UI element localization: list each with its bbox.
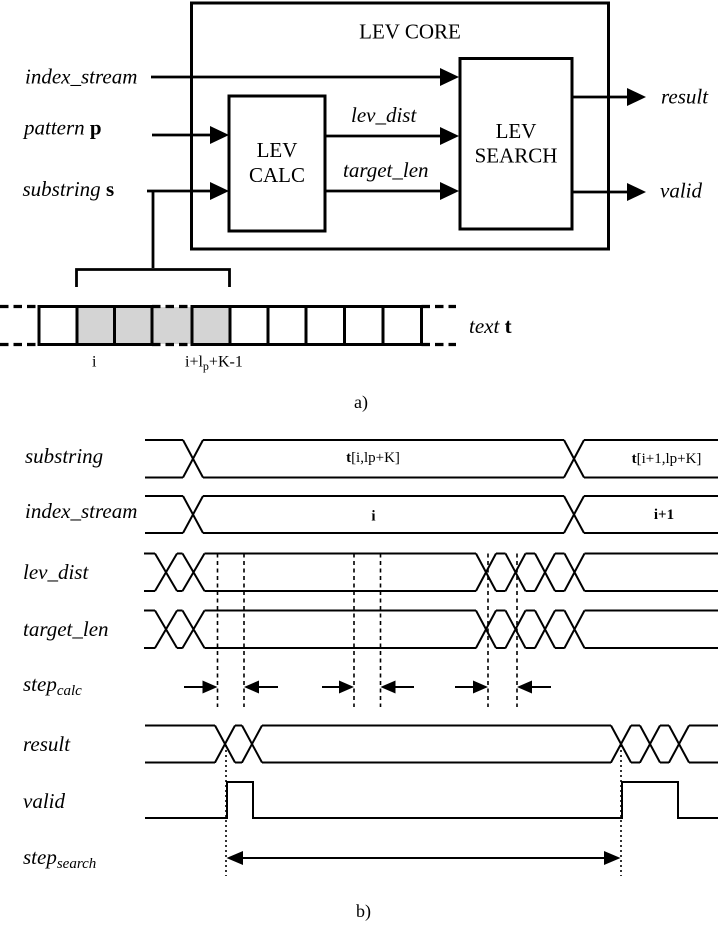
wire substring s	[147, 182, 229, 200]
svg-text:target_len: target_len	[343, 158, 429, 182]
svg-text:valid: valid	[23, 789, 65, 813]
bracket window	[77, 270, 230, 288]
svg-text:lev_dist: lev_dist	[351, 103, 417, 127]
wire index_stream	[151, 68, 459, 86]
step_calc arrow 1 left	[244, 681, 278, 694]
svg-text:b): b)	[356, 901, 371, 922]
svg-text:lev_dist: lev_dist	[23, 560, 89, 584]
svg-text:t[i+1,lp+K]: t[i+1,lp+K]	[632, 451, 702, 467]
svg-text:LEV CORE: LEV CORE	[359, 20, 461, 44]
step_calc arrow 2 left	[381, 681, 415, 694]
wire valid	[572, 183, 646, 201]
signal index_stream bus	[145, 496, 718, 533]
svg-text:pattern p: pattern p	[22, 116, 102, 140]
text array gray cells	[77, 307, 230, 344]
wire substring tap	[152, 191, 155, 268]
svg-text:a): a)	[354, 392, 368, 413]
block LEV SEARCH	[460, 59, 572, 230]
svg-text:text t: text t	[469, 314, 512, 338]
svg-text:target_len: target_len	[23, 617, 109, 641]
step_calc arrow 3 right	[455, 681, 488, 694]
dotted marker line left	[225, 745, 227, 876]
svg-text:i: i	[371, 509, 375, 525]
signal target_len bus	[144, 611, 718, 649]
svg-text:index_stream: index_stream	[25, 65, 137, 89]
text array cells	[39, 307, 422, 345]
signal lev_dist bus	[144, 554, 718, 592]
step_calc arrow 1 right	[184, 681, 218, 694]
outer box LEV CORE	[192, 3, 609, 249]
text array dashed gap	[152, 307, 192, 345]
svg-text:LEV: LEV	[496, 119, 537, 143]
svg-text:i+lp+K-1: i+lp+K-1	[185, 354, 243, 374]
block LEV CALC	[229, 96, 325, 231]
step_calc arrow 2 right	[322, 681, 354, 694]
svg-text:i+1: i+1	[654, 507, 674, 523]
svg-text:substring: substring	[25, 444, 103, 468]
svg-text:CALC: CALC	[249, 163, 305, 187]
wire result	[572, 88, 646, 106]
dashed marker lines pair 2	[354, 554, 381, 708]
svg-text:LEV: LEV	[257, 138, 298, 162]
svg-text:valid: valid	[660, 179, 702, 203]
svg-text:result: result	[661, 85, 709, 109]
svg-text:result: result	[23, 732, 71, 756]
svg-text:SEARCH: SEARCH	[475, 144, 558, 168]
dashed marker lines pair 1	[218, 554, 245, 708]
signal result bus	[145, 726, 718, 763]
signal substring bus	[145, 440, 718, 478]
signal valid	[145, 782, 718, 818]
svg-text:t[i,lp+K]: t[i,lp+K]	[346, 450, 400, 466]
svg-text:substring s: substring s	[23, 177, 115, 201]
text array dashed lead right	[422, 307, 457, 345]
wire pattern p	[152, 126, 229, 144]
step_search arrow	[227, 851, 621, 865]
svg-text:stepsearch: stepsearch	[23, 845, 96, 872]
dashed marker lines pair 3	[488, 554, 517, 708]
text array dashed lead left	[0, 307, 39, 345]
svg-text:stepcalc: stepcalc	[23, 672, 82, 699]
wire target_len	[325, 182, 459, 200]
svg-text:i: i	[92, 354, 97, 371]
svg-text:index_stream: index_stream	[25, 499, 137, 523]
wire lev_dist	[325, 127, 459, 145]
dotted marker line right	[620, 745, 622, 876]
step_calc arrow 3 left	[517, 681, 551, 694]
